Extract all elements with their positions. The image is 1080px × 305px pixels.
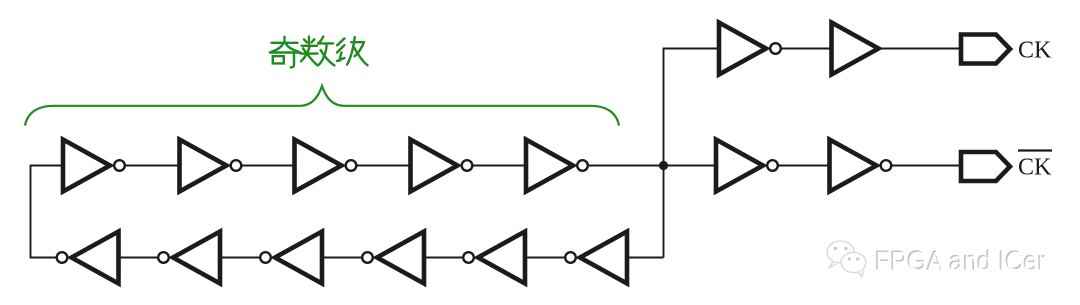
label "shu" (number) green character 2 (301, 37, 335, 66)
wire: input to inverter I1 (30, 165, 64, 167)
inverter I4 (top row, stage 4) (411, 140, 473, 192)
inverter I3 (top row, stage 3) (295, 140, 357, 192)
wire node vertical down to bottom row (663, 166, 665, 258)
CKbar output terminal flag (961, 152, 1010, 181)
watermark wechat small bubble eyes (848, 257, 851, 260)
wire: left feedback rail vertical (30, 166, 32, 258)
buffer U2 (CK branch, no bubble) (832, 23, 879, 75)
wire I3->I4 (357, 165, 412, 167)
inverter I2 (top row, stage 2) (180, 140, 242, 192)
inverter I11 (bottom row, leftmost) (57, 232, 119, 284)
wire I7->I8 (424, 257, 463, 259)
svg-text:CK: CK (1018, 38, 1052, 64)
inverter U3 (CKbar branch) (716, 140, 778, 192)
inverter I1 (top row, stage 1) (63, 140, 125, 192)
wire I6->I7 (525, 257, 565, 259)
wire I2->I3 (242, 165, 296, 167)
inverter I10 (bottom row) (158, 232, 220, 284)
inverter I8 (bottom row) (362, 232, 424, 284)
svg-text:FPGA and ICer: FPGA and ICer (876, 246, 1047, 277)
inverter I6 (bottom row, rightmost) (565, 232, 627, 284)
label "ji" (stage) green character 3 (337, 37, 368, 65)
wire U3->U4 (778, 165, 831, 167)
node junction dot (659, 161, 668, 170)
wire I8->I9 (322, 257, 362, 259)
wire I11 output to left rail (30, 257, 56, 259)
wire I5 output to CKbar branch through node (589, 165, 717, 167)
wire node vertical up to CK branch (663, 49, 665, 166)
wire I4->I5 (472, 165, 527, 167)
wire U4 to CKbar terminal (892, 165, 963, 167)
watermark wechat logo big bubble (827, 241, 854, 268)
inverter U1 (CK branch) (719, 23, 781, 75)
overline of CK-bar (1018, 149, 1052, 151)
label "qi" (odd) green character 1 (270, 37, 301, 68)
inverter I5 (top row, stage 5) (526, 140, 588, 192)
wire I1->I2 (125, 165, 181, 167)
wire U1->buffer U2 (781, 48, 833, 50)
wire U2 to CK terminal (879, 48, 963, 50)
inverter I9 (bottom row) (260, 232, 322, 284)
wire bottom feedback from node corner (627, 257, 664, 259)
inverter U4 (CKbar branch) (830, 140, 892, 192)
CK output terminal flag (961, 35, 1010, 64)
watermark wechat logo small bubble (841, 253, 866, 277)
wire I9->I10 (220, 257, 260, 259)
svg-text:CK: CK (1018, 155, 1052, 181)
wire I10->I11 (119, 257, 158, 259)
wire CK branch horizontal (663, 48, 720, 50)
watermark wechat big bubble eyes (834, 247, 837, 250)
brace (green) over odd stages (25, 86, 619, 126)
inverter I7 (bottom row) (463, 232, 525, 284)
